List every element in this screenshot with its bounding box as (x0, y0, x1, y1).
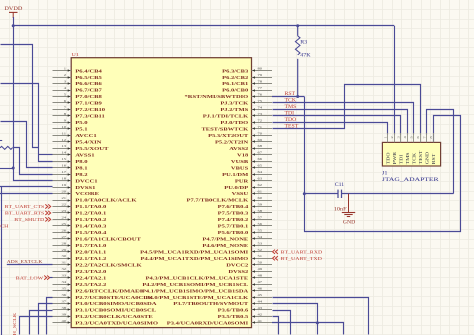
svg-text:5: 5 (64, 92, 66, 96)
svg-text:47K: 47K (300, 53, 310, 58)
port arrow BT_SHUTD (45, 217, 50, 221)
svg-text:P5.3/XT2OUT: P5.3/XT2OUT (208, 134, 248, 139)
svg-text:TDO: TDO (386, 152, 391, 164)
U1 left pin numbers 1-40 (61, 66, 66, 323)
capacitor C11 (338, 190, 342, 198)
J1 pin stubs (pins 1-8) (388, 133, 434, 142)
svg-text:TEST: TEST (285, 124, 299, 130)
svg-text:P7.2/CB10: P7.2/CB10 (75, 108, 105, 113)
svg-text:72: 72 (258, 118, 263, 122)
svg-text:P2.6/RTCCLK/DMAE0: P2.6/RTCCLK/DMAE0 (75, 289, 143, 294)
svg-text:52: 52 (258, 247, 263, 251)
svg-text:PU.1/DM: PU.1/DM (222, 173, 249, 178)
svg-text:TCK: TCK (412, 153, 417, 165)
svg-text:7: 7 (423, 136, 426, 138)
svg-text:BT_UART_RXD: BT_UART_RXD (281, 250, 323, 255)
wire ADS_EXTCLK to P2.2 pin (7, 264, 53, 266)
svg-text:78: 78 (258, 79, 263, 83)
svg-text:56: 56 (258, 221, 263, 225)
wire DVDD to DVCC1 pin (14, 169, 53, 181)
svg-text:J1: J1 (382, 171, 388, 176)
node RST/C11 junction (303, 192, 306, 195)
svg-text:BAT_LOW: BAT_LOW (16, 276, 43, 281)
svg-text:12: 12 (61, 137, 66, 141)
svg-text:P7.0/CB8: P7.0/CB8 (75, 95, 102, 100)
svg-text:VBUS: VBUS (231, 166, 248, 171)
svg-text:24: 24 (61, 215, 66, 219)
svg-text:64: 64 (258, 170, 263, 174)
svg-text:C11: C11 (335, 183, 345, 188)
wire XIN stub at left edge (0, 140, 2, 142)
port arrow BT_UART_TXD (273, 256, 278, 260)
resistor (series element at left edge) zigzag (0, 146, 12, 149)
svg-text:4: 4 (404, 136, 407, 138)
svg-text:35: 35 (61, 286, 66, 290)
svg-text:P4.6/PM_NONE: P4.6/PM_NONE (202, 244, 248, 249)
svg-text:P6.5/CB5: P6.5/CB5 (75, 76, 102, 81)
svg-text:41: 41 (258, 318, 263, 322)
svg-text:P6.0/CB0: P6.0/CB0 (222, 88, 248, 93)
wire branch to AVSS1 pin (39, 154, 53, 156)
svg-text:P3.2/UCB0CLK/UCA0STE: P3.2/UCB0CLK/UCA0STE (75, 315, 153, 320)
wire DVDD branch to left edge (0, 168, 13, 170)
J1 pin names (rotated) (386, 150, 437, 165)
svg-text:DVCC1: DVCC1 (75, 179, 98, 184)
svg-text:66: 66 (258, 157, 263, 161)
svg-text:20: 20 (61, 189, 66, 193)
svg-text:P4.4/PM_UCA1TXD/PM_UCA1SIMO: P4.4/PM_UCA1TXD/PM_UCA1SIMO (141, 257, 249, 262)
wire DVSS1 from left edge (0, 186, 53, 188)
node P3.7/P3.4 junction (316, 321, 319, 324)
U1 left pin stubs (pins 1-40) (53, 71, 72, 323)
svg-text:17: 17 (61, 170, 66, 174)
svg-text:P6.2/CB2: P6.2/CB2 (222, 75, 248, 80)
svg-text:4: 4 (64, 86, 66, 90)
svg-text:2: 2 (64, 73, 66, 77)
svg-text:VSSU: VSSU (232, 192, 249, 197)
svg-text:27: 27 (61, 234, 66, 238)
svg-text:*RST/NMI/SBWTDIO: *RST/NMI/SBWTDIO (185, 95, 249, 100)
wire P2.7 down off-sheet (47, 298, 53, 335)
svg-text:P5.6/TB0.0: P5.6/TB0.0 (218, 231, 249, 236)
wire P3.1 down off-sheet (30, 311, 53, 335)
svg-text:33: 33 (61, 273, 66, 277)
svg-text:PJ.2/TMS: PJ.2/TMS (220, 108, 248, 113)
wire C11 right plate to GND loop (342, 193, 454, 195)
svg-text:6: 6 (417, 136, 420, 138)
svg-text:DVCC2: DVCC2 (226, 263, 248, 268)
svg-text:P1.0/TA0CLK/ACLK: P1.0/TA0CLK/ACLK (75, 198, 137, 203)
svg-text:P1.3/TA0.2: P1.3/TA0.2 (75, 218, 106, 223)
svg-text:65: 65 (258, 163, 263, 167)
port arrow BT_UART_RXD (273, 250, 278, 254)
svg-text:P7.3/CB11: P7.3/CB11 (75, 114, 105, 119)
svg-text:P8.0: P8.0 (75, 160, 87, 165)
svg-text:44: 44 (258, 299, 263, 303)
svg-text:39: 39 (61, 312, 66, 316)
svg-text:P3.4/UCA0RXD/UCA0SOMI: P3.4/UCA0RXD/UCA0SOMI (167, 321, 248, 326)
U1 right pin names (140, 69, 249, 326)
svg-text:P3.3/UCA0TXD/UCA0SIMO: P3.3/UCA0TXD/UCA0SIMO (75, 321, 158, 326)
svg-text:VCORE: VCORE (75, 192, 99, 197)
svg-text:69: 69 (258, 137, 263, 141)
wire zigzag to P8.2 pin (13, 148, 53, 175)
svg-text:GND: GND (425, 152, 430, 165)
svg-text:76: 76 (258, 92, 263, 96)
svg-text:P4.1/PM_UCB1SIMO/PM_UCB1SDA: P4.1/PM_UCB1SIMO/PM_UCB1SDA (142, 289, 249, 294)
svg-text:P5.1: P5.1 (75, 127, 87, 132)
svg-text:9: 9 (64, 118, 66, 122)
svg-text:U1: U1 (72, 53, 80, 58)
svg-text:30: 30 (61, 254, 66, 258)
svg-text:29: 29 (61, 247, 66, 251)
svg-text:P1.5/TA0.4: P1.5/TA0.4 (75, 231, 106, 236)
svg-text:P4.0/PM_UCB1STE/PM_UCA1CLK: P4.0/PM_UCB1STE/PM_UCA1CLK (146, 295, 249, 300)
svg-text:P5.2/XT2IN: P5.2/XT2IN (215, 140, 248, 145)
svg-text:P7.1/CB9: P7.1/CB9 (75, 101, 102, 106)
svg-text:P2.2/TA2CLK/SMCLK: P2.2/TA2CLK/SMCLK (75, 263, 142, 268)
svg-text:P2.0/TA1.1: P2.0/TA1.1 (75, 250, 106, 255)
svg-text:21: 21 (61, 196, 66, 200)
svg-text:P3.1/UCB0SOMI/UCB0SCL: P3.1/UCB0SOMI/UCB0SCL (75, 308, 156, 313)
svg-text:BT_UART_TXD: BT_UART_TXD (281, 256, 323, 261)
wire net-B from left edge to P8.0 pin (1, 84, 53, 162)
svg-text:P6.6/CB6: P6.6/CB6 (75, 82, 102, 87)
svg-text:P2.3/TA2.0: P2.3/TA2.0 (75, 270, 106, 275)
svg-text:8: 8 (430, 136, 433, 138)
svg-text:PJ.3/TCK: PJ.3/TCK (220, 101, 249, 106)
svg-text:TMS: TMS (285, 104, 297, 110)
svg-text:26: 26 (61, 228, 66, 232)
wire DVDD drop to J1 PWR (394, 26, 396, 135)
svg-text:P7.5/TB0.3: P7.5/TB0.3 (218, 211, 249, 216)
svg-text:PUR: PUR (235, 179, 249, 184)
power symbol DVDD (4, 7, 22, 18)
svg-text:P1.2/TA0.1: P1.2/TA0.1 (75, 211, 106, 216)
svg-text:18: 18 (61, 176, 66, 180)
svg-text:P4.7/PM_NONE: P4.7/PM_NONE (202, 237, 248, 242)
svg-text:16: 16 (61, 163, 66, 167)
svg-text:1: 1 (384, 136, 387, 138)
connector J1 JTAG_ADAPTER body (382, 142, 440, 166)
U1 right pin arrows (252, 69, 255, 324)
wire net-A from left edge to P8.0 riser (1, 45, 39, 148)
svg-text:59: 59 (258, 202, 263, 206)
port arrow BT_UART_CTS (45, 204, 50, 208)
wire left edge vertical (DVSS) (1, 187, 3, 335)
svg-text:TMS: TMS (405, 152, 410, 164)
svg-text:P3.6/TB0.6: P3.6/TB0.6 (218, 308, 249, 313)
svg-text:P6.3/CB3: P6.3/CB3 (222, 69, 248, 74)
svg-text:PU.0/DP: PU.0/DP (224, 185, 249, 190)
svg-text:28: 28 (61, 241, 66, 245)
node DVDD junction at rail left (12, 24, 15, 27)
wire BAT_LOW stub (50, 277, 53, 279)
svg-text:71: 71 (258, 124, 263, 128)
svg-text:P1.1/TA0.0: P1.1/TA0.0 (75, 205, 106, 210)
svg-text:40: 40 (61, 318, 66, 322)
svg-text:P5.0: P5.0 (75, 121, 87, 126)
svg-text:47: 47 (258, 280, 263, 284)
wire P3.0 down off-sheet (39, 304, 53, 335)
svg-text:AVSS2: AVSS2 (229, 147, 248, 152)
svg-text:32: 32 (61, 267, 66, 271)
svg-text:P3.7/TB0OUTH/SVMOUT: P3.7/TB0OUTH/SVMOUT (173, 302, 248, 307)
svg-text:53: 53 (258, 241, 263, 245)
svg-text:79: 79 (258, 73, 263, 77)
node DVDD junction at R3 (296, 24, 299, 27)
svg-text:55: 55 (258, 228, 263, 232)
svg-text:RST: RST (432, 153, 437, 164)
svg-text:22: 22 (61, 202, 66, 206)
svg-text:CH: CH (0, 224, 8, 229)
svg-text:34: 34 (61, 280, 66, 284)
svg-text:P7.4/TB0.2: P7.4/TB0.2 (218, 218, 249, 223)
svg-text:13: 13 (61, 144, 66, 148)
svg-text:6: 6 (64, 99, 66, 103)
node DVDD junction left branch (12, 167, 15, 170)
svg-text:DVSS1: DVSS1 (75, 186, 95, 191)
svg-text:V18: V18 (237, 153, 248, 158)
svg-text:74: 74 (258, 105, 263, 109)
wire TDO to J1 pin 1 (273, 123, 388, 135)
svg-text:TEST/SBWTCK: TEST/SBWTCK (201, 127, 248, 132)
svg-text:P4.2/PM_UCB1SOMI/PM_UCB1SCL: P4.2/PM_UCB1SOMI/PM_UCB1SCL (142, 283, 248, 288)
svg-text:67: 67 (258, 150, 263, 154)
U1 left pin arrows (68, 69, 71, 324)
svg-text:RST: RST (285, 91, 296, 97)
svg-text:P5.5/XOUT: P5.5/XOUT (75, 147, 108, 152)
svg-text:P6.7/CB7: P6.7/CB7 (75, 88, 102, 93)
wire RST loop to J1 pin 8 (305, 97, 461, 232)
svg-text:P5.4/XIN: P5.4/XIN (75, 140, 102, 145)
svg-text:BT_UART_RTS: BT_UART_RTS (5, 211, 44, 216)
port arrow BAT_LOW (44, 276, 49, 280)
svg-text:11: 11 (62, 131, 66, 135)
IC U1 MSP430F5529 body (71, 58, 251, 328)
svg-text:P2.1/TA1.2: P2.1/TA1.2 (75, 257, 106, 262)
svg-text:P1.4/TA0.3: P1.4/TA0.3 (75, 224, 106, 229)
svg-text:51: 51 (258, 254, 263, 258)
svg-text:TDI: TDI (285, 111, 295, 117)
wire RST from pin (272, 96, 304, 98)
svg-text:P3.0/UCB0SIMO/UCB0SDA: P3.0/UCB0SIMO/UCB0SDA (75, 302, 157, 307)
wire P3.6 down off-sheet (273, 311, 291, 335)
svg-text:54: 54 (258, 234, 263, 238)
svg-text:19: 19 (61, 183, 66, 187)
svg-text:10: 10 (61, 124, 66, 128)
svg-text:77: 77 (258, 86, 263, 90)
wire net-C from left edge to P8.1 pin (1, 122, 53, 168)
resistor R3 (295, 26, 300, 97)
svg-text:P2.4/TA2.1: P2.4/TA2.1 (75, 276, 106, 281)
U1 right pin numbers 80-41 (258, 66, 263, 323)
svg-text:73: 73 (258, 111, 263, 115)
svg-text:5: 5 (410, 136, 413, 138)
svg-text:P5.7/TB0.1: P5.7/TB0.1 (218, 224, 249, 229)
svg-text:VUSB: VUSB (231, 160, 249, 165)
svg-text:38: 38 (61, 306, 66, 310)
svg-text:P7.6/TB0.4: P7.6/TB0.4 (218, 205, 249, 210)
wire TEST to J1 pin 6 (273, 85, 421, 135)
svg-text:61: 61 (258, 189, 263, 193)
wire junction branch down off-sheet (318, 323, 344, 335)
svg-text:1: 1 (64, 66, 66, 70)
wire DVDD stem (13, 17, 15, 26)
svg-text:48: 48 (258, 273, 263, 277)
wire RST to C11 left plate (304, 193, 338, 195)
svg-text:43: 43 (258, 306, 263, 310)
svg-text:P6.4/CB4: P6.4/CB4 (75, 69, 102, 74)
svg-text:14: 14 (61, 150, 66, 154)
svg-text:68: 68 (258, 144, 263, 148)
svg-text:3: 3 (397, 136, 400, 138)
svg-text:P8.1: P8.1 (75, 166, 87, 171)
svg-text:25: 25 (61, 221, 66, 225)
svg-text:AVSS1: AVSS1 (75, 153, 95, 158)
svg-text:GND: GND (343, 220, 356, 225)
svg-text:75: 75 (258, 99, 263, 103)
svg-text:7: 7 (64, 105, 66, 109)
svg-text:P4.5/PM_UCA1RXD/PM_UCA1SOMI: P4.5/PM_UCA1RXD/PM_UCA1SOMI (140, 250, 248, 255)
svg-text:15: 15 (61, 157, 66, 161)
svg-text:60: 60 (258, 196, 263, 200)
svg-text:TDO: TDO (285, 117, 297, 123)
svg-text:70: 70 (258, 131, 263, 135)
svg-text:80: 80 (258, 66, 263, 70)
svg-text:R3: R3 (300, 40, 307, 45)
wire VCORE from left edge (0, 193, 53, 195)
svg-text:TDI: TDI (399, 154, 404, 164)
wire TCK to J1 pin 5 (273, 103, 414, 135)
svg-text:3: 3 (64, 79, 66, 83)
svg-text:BT_SHUTD: BT_SHUTD (14, 218, 44, 223)
wire P4.0 down off-sheet (273, 298, 369, 335)
svg-text:TCH_SCLK: TCH_SCLK (12, 313, 17, 335)
wire DVDD rail (13, 25, 394, 27)
svg-text:PWR: PWR (392, 151, 397, 164)
wire TDI to J1 pin 3 (273, 116, 401, 135)
svg-text:BT_UART_CTS: BT_UART_CTS (5, 205, 45, 210)
wire DVDD vertical to DVCC1 (13, 26, 15, 168)
J1 pin numbers 1-8 (rotated) (384, 136, 433, 138)
svg-text:P1.7/TA1.0: P1.7/TA1.0 (75, 244, 106, 249)
svg-text:50: 50 (258, 260, 263, 264)
node RST/R3 junction (296, 95, 299, 98)
svg-text:P4.3/PM_UCB1CLK/PM_UCA1STE: P4.3/PM_UCB1CLK/PM_UCA1STE (146, 276, 249, 281)
svg-text:23: 23 (61, 208, 66, 212)
svg-text:TCK: TCK (285, 98, 297, 104)
svg-text:45: 45 (258, 293, 263, 297)
svg-text:42: 42 (258, 312, 263, 316)
svg-text:DVSS2: DVSS2 (228, 270, 248, 275)
svg-text:2: 2 (391, 136, 394, 138)
svg-text:58: 58 (258, 208, 263, 212)
svg-text:P2.5/TA2.2: P2.5/TA2.2 (75, 283, 106, 288)
port arrow BT_UART_RTS (45, 211, 50, 215)
svg-text:P2.7/UCB0STE/UCA0CLK: P2.7/UCB0STE/UCA0CLK (75, 296, 153, 301)
svg-text:PJ.1/TDI/TCLK: PJ.1/TDI/TCLK (203, 114, 249, 119)
svg-text:31: 31 (61, 260, 66, 264)
svg-text:P3.5/TB0.5: P3.5/TB0.5 (218, 315, 249, 320)
wire GND loop from J1 pin 7 (427, 110, 454, 194)
wire P3.2 down off-sheet (20, 317, 53, 335)
ground GND power port (342, 194, 356, 226)
svg-text:P8.2: P8.2 (75, 173, 87, 178)
svg-text:37: 37 (61, 299, 66, 303)
svg-text:DVDD: DVDD (4, 7, 22, 12)
svg-text:JTAG_ADAPTER: JTAG_ADAPTER (382, 177, 440, 182)
wire TMS to J1 pin 4 (273, 110, 408, 135)
wire P3.5 down off-sheet (273, 317, 279, 335)
svg-text:49: 49 (258, 267, 263, 271)
svg-text:P1.6/TA1CLK/CBOUT: P1.6/TA1CLK/CBOUT (75, 237, 141, 242)
svg-text:57: 57 (258, 215, 263, 219)
U1 right pin stubs (pins 80-41) (252, 71, 273, 323)
U1 left pin names (75, 69, 158, 326)
wire P3.4 to junction (272, 322, 317, 324)
svg-text:10nF: 10nF (334, 207, 347, 212)
wire P3.7 down off-sheet (273, 304, 318, 335)
svg-text:PJ.0/TDO: PJ.0/TDO (220, 121, 249, 126)
svg-text:46: 46 (258, 286, 263, 290)
svg-text:P7.7/TB0CLK/MCLK: P7.7/TB0CLK/MCLK (187, 198, 249, 203)
svg-text:TEST: TEST (418, 150, 423, 165)
svg-text:P6.1/CB1: P6.1/CB1 (222, 82, 248, 87)
svg-text:36: 36 (61, 293, 66, 297)
svg-text:8: 8 (64, 111, 66, 115)
svg-text:63: 63 (258, 176, 263, 180)
svg-text:AVCC1: AVCC1 (75, 134, 97, 139)
svg-text:62: 62 (258, 183, 263, 187)
